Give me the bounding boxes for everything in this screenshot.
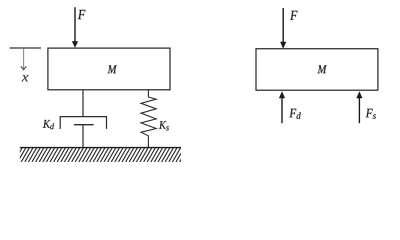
damper upper rod xyxy=(82,90,84,117)
displacement arrow x xyxy=(21,49,26,70)
spring Ks xyxy=(141,90,156,148)
force arrow F (right) xyxy=(280,8,286,49)
label F (right) xyxy=(290,11,298,20)
label Ks xyxy=(159,121,169,130)
damper cup xyxy=(60,117,106,129)
mass M box (right) xyxy=(256,49,378,90)
label Fs xyxy=(366,109,376,119)
spring force arrow Fs xyxy=(356,91,362,123)
label M (left) xyxy=(108,65,117,73)
force arrow F (left) xyxy=(72,7,78,48)
label x xyxy=(22,75,29,81)
datum line xyxy=(10,47,42,49)
damper force arrow Fd xyxy=(279,91,285,123)
damper lower rod xyxy=(82,125,84,148)
label M (right) xyxy=(317,65,326,73)
damper Kd xyxy=(60,90,106,148)
label F (left) xyxy=(78,10,86,19)
mass M box (left) xyxy=(48,48,170,90)
damper piston xyxy=(74,124,94,126)
ground (hatched) xyxy=(14,148,199,163)
label Kd xyxy=(43,120,54,129)
label Fd xyxy=(289,109,300,119)
